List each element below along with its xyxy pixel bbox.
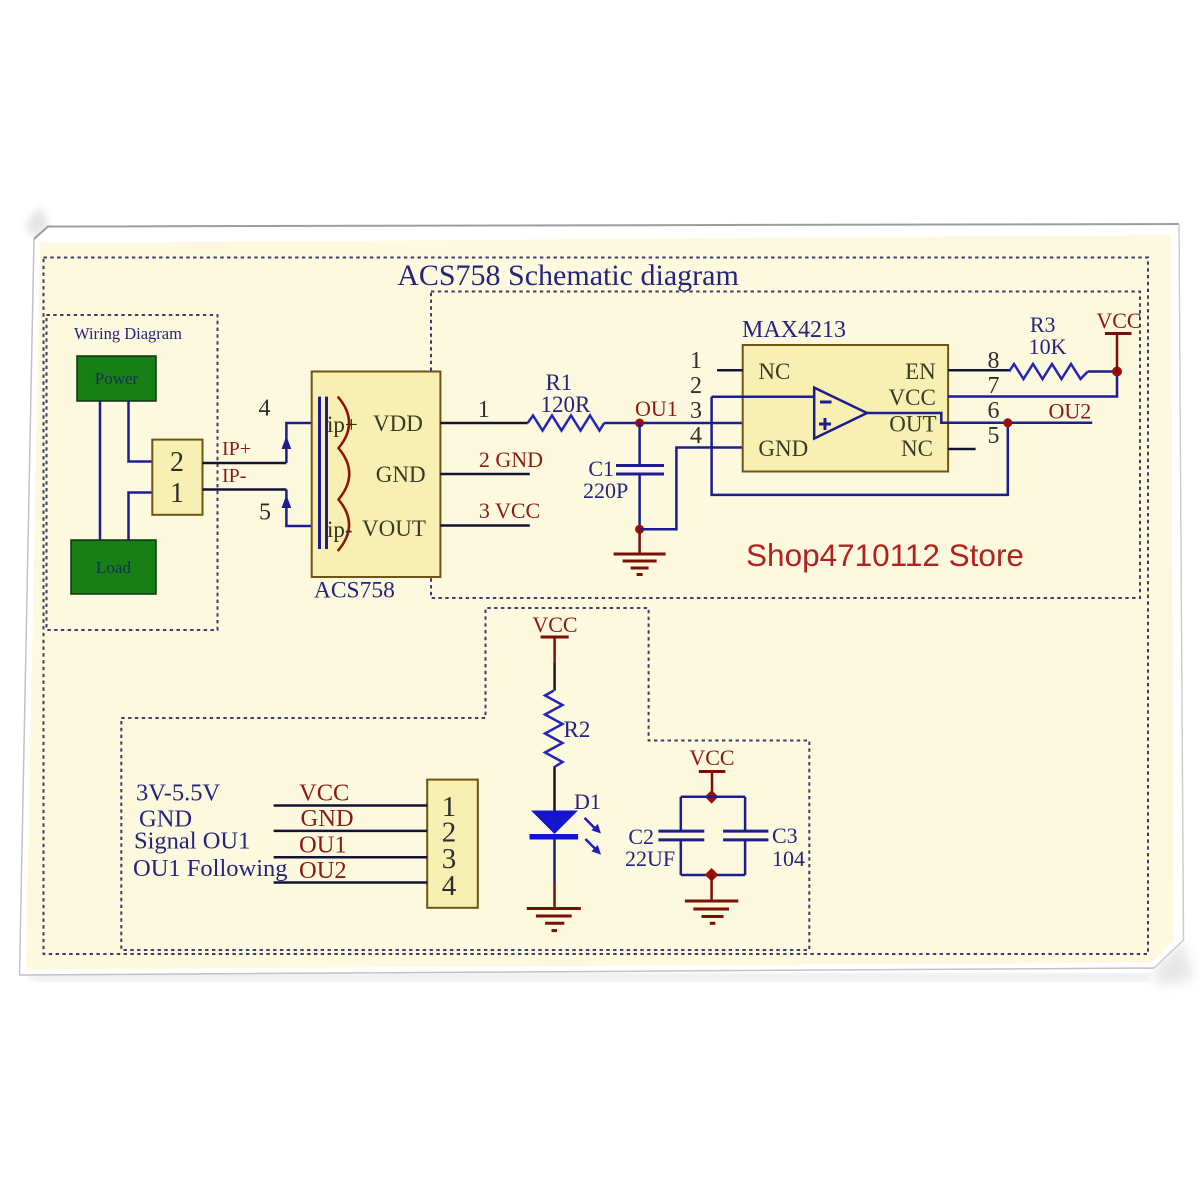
svg-text:5: 5 [259, 500, 271, 526]
LED arrow 2 [585, 839, 601, 855]
LED D1 triangle [531, 811, 578, 835]
wire IP+ [203, 462, 287, 465]
power VCC top right [1096, 308, 1141, 372]
pin 7 wire to VCC node [948, 372, 1117, 397]
wire load to terminal 1 [129, 493, 153, 541]
page sheet [20, 206, 1195, 986]
svg-text:VOUT: VOUT [362, 516, 426, 541]
power box [77, 356, 156, 401]
svg-text:VDD: VDD [373, 411, 423, 436]
power VCC above R2 [532, 612, 577, 691]
ground below C1 [614, 529, 666, 574]
svg-text:GND: GND [376, 462, 426, 487]
sheet shadow bottom edge [30, 975, 1150, 980]
node C1 bottom [635, 525, 644, 534]
svg-text:1: 1 [690, 348, 702, 374]
wire IP- [203, 488, 287, 491]
op-amp output wire [867, 413, 1092, 423]
svg-text:4: 4 [690, 423, 702, 449]
svg-text:OU1 Following: OU1 Following [133, 855, 288, 882]
power VCC above C2 C3 [689, 745, 734, 792]
pin 2 GND wire stub [440, 473, 529, 476]
svg-text:220P: 220P [583, 478, 628, 503]
feedback wire pin2 to OUT [712, 397, 1008, 495]
svg-text:VCC: VCC [1096, 308, 1141, 333]
svg-text:D1: D1 [574, 789, 601, 814]
svg-text:1: 1 [170, 478, 184, 509]
ground below D1 [527, 909, 581, 931]
connector wire 2 [274, 830, 428, 833]
sheet edges [34, 224, 1179, 239]
wire R3 to VCC node [1088, 370, 1117, 373]
svg-text:Shop4710112 Store: Shop4710112 Store [746, 537, 1024, 573]
svg-text:2: 2 [690, 373, 702, 399]
svg-text:Wiring Diagram: Wiring Diagram [74, 324, 182, 343]
svg-text:2: 2 [170, 447, 184, 478]
svg-text:IP-: IP- [222, 465, 246, 487]
svg-text:3: 3 [690, 398, 702, 424]
svg-text:OU1: OU1 [299, 832, 347, 859]
pin 2 wire to - input [712, 395, 815, 398]
core line 1 [318, 397, 321, 549]
svg-text:120R: 120R [540, 392, 591, 417]
resistor R2 [545, 691, 563, 768]
svg-text:VCC: VCC [889, 385, 936, 410]
svg-text:4: 4 [442, 870, 457, 902]
svg-text:2 GND: 2 GND [479, 447, 543, 472]
op-amp U1 MAX4213 box [743, 345, 948, 472]
terminal block 2/1 [152, 440, 202, 515]
outer dashed border [44, 258, 1149, 955]
svg-text:VCC: VCC [532, 612, 577, 637]
svg-text:22UF: 22UF [625, 846, 675, 871]
svg-text:OUT: OUT [889, 412, 936, 437]
sheet shadow top-left fold [25, 206, 49, 239]
sheet shadow bottom-right fold [1154, 941, 1194, 986]
pin1 stub [717, 369, 743, 372]
svg-text:5: 5 [988, 423, 1000, 449]
capacitor C1 plates [616, 464, 664, 467]
cream paper area [26, 235, 1174, 970]
wiring diagram dashed box [47, 315, 218, 630]
pin5 stub [948, 448, 976, 451]
svg-text:4: 4 [259, 396, 271, 422]
node top C2C3 [705, 790, 719, 804]
top rail C2C3 [681, 796, 745, 799]
wire power to terminal 2 [129, 401, 153, 462]
connector wire 3 [274, 856, 428, 859]
capacitor C3 [723, 797, 768, 875]
svg-text:ACS758: ACS758 [314, 578, 395, 604]
wire C1 node to MAX4213 GND pin 4 [640, 448, 743, 530]
ground below C2C3 [685, 875, 738, 923]
svg-text:VCC: VCC [689, 745, 734, 770]
svg-text:7: 7 [988, 373, 1000, 399]
node bottom C2C3 [705, 868, 719, 882]
svg-text:Power: Power [95, 369, 139, 388]
svg-text:EN: EN [905, 359, 936, 384]
node VCC R3 [1112, 367, 1122, 377]
svg-text:104: 104 [772, 846, 805, 871]
svg-text:ip+: ip+ [327, 412, 358, 437]
wire node OU1 to op-amp + input [640, 422, 815, 425]
resistor R1 [528, 416, 605, 431]
bottom rail C2C3 [681, 874, 745, 877]
svg-text:R2: R2 [564, 717, 591, 742]
svg-text:NC: NC [901, 436, 933, 461]
LED D1 cathode bar [530, 834, 579, 840]
pin 1 wire [440, 422, 527, 425]
svg-text:3V-5.5V: 3V-5.5V [136, 780, 220, 807]
connector J1 box [427, 780, 478, 908]
resistor R3 [1009, 364, 1088, 379]
capacitor C1 top lead [638, 423, 641, 466]
wire power to load [99, 401, 102, 540]
load box [71, 540, 156, 594]
svg-text:C3: C3 [772, 823, 798, 848]
pin 4 riser with arrow [259, 396, 312, 464]
pin 5 riser with arrow [259, 490, 312, 527]
svg-text:OU2: OU2 [1049, 399, 1092, 424]
svg-text:Signal OU1: Signal OU1 [134, 828, 250, 855]
sheet body [20, 224, 1184, 975]
svg-text:GND: GND [758, 436, 808, 461]
plus input mark [819, 423, 831, 426]
minus input mark [820, 401, 832, 404]
svg-text:GND: GND [301, 805, 354, 832]
connector wire 1 [274, 804, 428, 807]
LED bottom lead [553, 840, 556, 884]
svg-text:6: 6 [988, 398, 1000, 424]
capacitor C1 bottom lead [638, 474, 641, 529]
svg-text:NC: NC [758, 359, 790, 384]
main schematic dashed box [431, 292, 1140, 599]
connector wire 4 [274, 881, 428, 884]
svg-text:IP+: IP+ [222, 438, 251, 460]
core line 2 [325, 397, 328, 549]
capacitor C2 [658, 797, 704, 875]
svg-text:3 VCC: 3 VCC [479, 498, 540, 523]
coil brace [338, 397, 350, 551]
svg-text:VCC: VCC [299, 780, 349, 807]
pin 3 VCC wire stub [440, 524, 529, 527]
pin8 stub to R3 [948, 369, 1009, 372]
node OU1 [635, 419, 644, 428]
wire R2 to LED [553, 768, 556, 812]
node OUT [1003, 418, 1012, 427]
wire R1 to node OU1 [604, 422, 639, 425]
svg-text:OU2: OU2 [299, 857, 347, 884]
op-amp triangle [814, 388, 867, 439]
ACS758 box [312, 372, 441, 578]
svg-text:1: 1 [478, 397, 490, 423]
svg-text:MAX4213: MAX4213 [742, 317, 846, 343]
LED arrow 1 [585, 818, 602, 834]
svg-text:ip-: ip- [327, 517, 353, 542]
bottom section dashed outline [121, 608, 809, 950]
svg-text:OU1: OU1 [635, 396, 678, 421]
svg-text:ACS758 Schematic diagram: ACS758 Schematic diagram [397, 259, 739, 292]
svg-text:10K: 10K [1029, 334, 1067, 359]
svg-text:Load: Load [96, 558, 131, 577]
